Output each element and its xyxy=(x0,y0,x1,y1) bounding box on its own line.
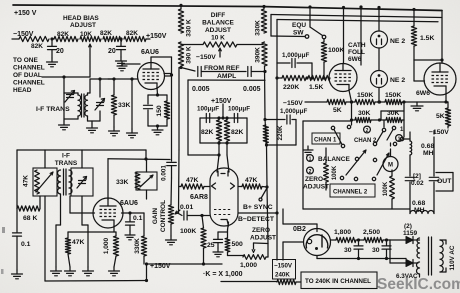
svg-text:CONTROL: CONTROL xyxy=(160,200,167,232)
svg-text:M: M xyxy=(388,163,393,169)
label 100K balance rotated xyxy=(332,165,338,180)
contact sw b xyxy=(347,125,350,128)
wire 0.01 to grid xyxy=(188,214,210,217)
label -150V diff xyxy=(196,54,216,61)
svg-text:100K: 100K xyxy=(328,47,344,54)
resistor 150K left xyxy=(355,99,375,104)
svg-text:+150V: +150V xyxy=(211,98,232,105)
label -150V (head bias feed) xyxy=(13,31,34,38)
wire right column 265 xyxy=(265,66,269,244)
ift1 secondary coil xyxy=(85,95,88,116)
ground under 20 left xyxy=(47,58,58,67)
wire 2500 right xyxy=(383,240,390,263)
svg-text:B−DETECT: B−DETECT xyxy=(238,216,275,223)
svg-text:6W6: 6W6 xyxy=(416,90,430,97)
resistor 33K stage2 xyxy=(135,172,140,190)
svg-text:0.01: 0.01 xyxy=(180,204,193,211)
box inner top xyxy=(277,20,438,64)
ift1 primary variable capacitor xyxy=(65,91,75,103)
resistor 47K right 6AR8 xyxy=(238,184,269,189)
label 0.1 left xyxy=(21,241,31,248)
label 0.1 stage2 xyxy=(133,215,143,222)
wire 82K net bottom rail xyxy=(200,141,247,144)
label 6AU6 stage1 xyxy=(141,49,159,56)
contact sw d xyxy=(373,142,376,145)
label CHAN 1 box xyxy=(312,133,340,144)
wire +150V bottom rail xyxy=(147,263,223,265)
node head bias A xyxy=(50,37,53,40)
wire ift1 varcap2 top xyxy=(98,77,101,97)
wiper arrow gain xyxy=(175,210,180,214)
label 1 right xyxy=(400,127,404,133)
capacitor 100uuF right xyxy=(234,114,237,123)
capacitor 0.001 interstage xyxy=(167,162,177,178)
label +150V (top left) xyxy=(14,10,37,17)
wire +150V top rail xyxy=(13,5,442,11)
label 20 left xyxy=(56,48,64,55)
svg-text:+150 V: +150 V xyxy=(14,10,37,17)
contact sw h xyxy=(355,157,358,160)
label CATH FOLL 6W6 xyxy=(348,42,366,63)
label 6AR8 xyxy=(190,194,208,201)
tube 6W6 output xyxy=(424,63,456,95)
wire bottom rail right xyxy=(296,281,301,283)
wire network left edge xyxy=(188,80,221,157)
label 47K right 6AR8 xyxy=(245,177,258,184)
wire ift1 primary top xyxy=(64,93,78,95)
ground 0.1 stage2 xyxy=(125,231,135,240)
wire 82K net top rail xyxy=(200,117,247,119)
svg-text:0.1: 0.1 xyxy=(21,241,31,248)
wire +150V drop xyxy=(221,104,224,120)
svg-text:0.02: 0.02 xyxy=(411,180,424,187)
box outer top xyxy=(271,15,442,37)
capacitor 0.1 left xyxy=(13,233,22,270)
label 82K second xyxy=(57,31,69,38)
meter M xyxy=(383,143,398,172)
wire 33K2 node top xyxy=(108,157,170,199)
resistor 5K row xyxy=(327,99,346,104)
label -150V box xyxy=(274,263,293,270)
capacitor from-ref right xyxy=(248,67,251,77)
svg-text:47K: 47K xyxy=(72,239,85,246)
svg-text:100K: 100K xyxy=(180,228,196,235)
ift2 right varcap xyxy=(77,177,87,189)
resistor 1.5K row xyxy=(305,75,330,80)
jack OUT xyxy=(436,173,453,192)
svg-text:33K: 33K xyxy=(118,102,131,109)
wire from ref ampl right xyxy=(252,70,267,73)
capacitor from-ref left xyxy=(198,67,201,77)
svg-text:220K: 220K xyxy=(277,125,284,141)
label 33K stage1 xyxy=(118,102,131,109)
switch lever equ xyxy=(308,5,322,35)
contact sw i xyxy=(373,158,376,161)
wire stage2 box right +150V xyxy=(145,262,148,280)
label 82K net right xyxy=(231,129,244,136)
wire 0.005 left drop xyxy=(178,68,181,214)
svg-text:NE 2: NE 2 xyxy=(390,77,405,84)
6AR8 grid dashes xyxy=(214,210,232,215)
wire 6.3v lead xyxy=(406,259,420,278)
label ZERO ADJUST 6AR8 xyxy=(250,227,276,242)
potentiometer 1000 zero xyxy=(243,255,266,260)
wiper 1000 zero xyxy=(252,243,268,257)
label circled 2 zero xyxy=(307,167,314,175)
svg-text:150K: 150K xyxy=(385,92,401,99)
resistor 150K right xyxy=(385,99,402,104)
lever sw 2 xyxy=(377,132,384,143)
svg-text:6AU6: 6AU6 xyxy=(141,49,159,56)
resistor 150 cathode xyxy=(164,95,169,126)
resistor 220K row xyxy=(282,75,306,80)
svg-text:100μμF: 100μμF xyxy=(228,106,250,113)
wire 1.5K to plate xyxy=(414,58,444,61)
svg-text:ZERO: ZERO xyxy=(252,227,270,234)
capacitor 1000uuF lower xyxy=(265,115,296,145)
svg-text:390K: 390K xyxy=(255,47,262,63)
wire 82K right to 6AR8 xyxy=(227,143,229,172)
svg-text:OF DUAL: OF DUAL xyxy=(13,72,42,79)
resistor 82K fourth xyxy=(124,36,146,41)
ground under 20 right xyxy=(116,57,127,66)
contact sw j xyxy=(340,176,343,179)
label 25 xyxy=(207,242,215,249)
svg-text:CHANNEL: CHANNEL xyxy=(13,80,45,87)
capacitor 30 left xyxy=(354,240,363,260)
svg-text:30K: 30K xyxy=(358,110,371,117)
svg-text:2: 2 xyxy=(366,128,369,134)
svg-text:GAIN: GAIN xyxy=(152,208,159,225)
ground 1000 stage2 xyxy=(109,267,120,276)
wire 68K down xyxy=(16,209,18,233)
svg-text:30K: 30K xyxy=(387,110,400,117)
ground chan1 xyxy=(303,146,313,155)
label +150V network xyxy=(211,98,232,105)
wire 82K net right edge xyxy=(246,118,248,143)
resistor 5K vert xyxy=(445,102,450,128)
wire network top edge xyxy=(188,79,265,81)
wire filter left rail mid xyxy=(409,155,411,176)
resistor 1000 stage2 xyxy=(113,232,118,267)
label 0.005 left xyxy=(192,86,210,93)
svg-text:330K: 330K xyxy=(255,20,262,36)
wire filter right low xyxy=(433,182,435,214)
label 30K left xyxy=(358,110,371,117)
svg-text:HEAD BIAS: HEAD BIAS xyxy=(63,15,99,22)
transformer HV winding xyxy=(417,238,420,258)
potentiometer GAIN CONTROL xyxy=(168,205,173,236)
label OUT xyxy=(437,178,452,185)
label 47K stage2 xyxy=(72,239,85,246)
svg-text:−150V: −150V xyxy=(274,263,293,270)
transformer 6.3V winding xyxy=(417,262,420,274)
transformer primary xyxy=(440,240,443,272)
label 10K xyxy=(80,31,92,38)
wire 150K right down xyxy=(403,102,405,137)
label 1000 zero xyxy=(240,262,257,269)
resistor 30K left xyxy=(350,102,371,123)
svg-text:30: 30 xyxy=(344,247,352,254)
resistor 33K stage1 xyxy=(111,77,116,127)
svg-text:68 K: 68 K xyxy=(23,215,37,222)
node 220K top xyxy=(263,118,266,121)
label DIFF BALANCE ADJUST 10K xyxy=(202,12,234,42)
resistor 330K stage2 xyxy=(141,213,146,264)
lamp NE2 lower xyxy=(371,71,388,88)
label TO ONE CHANNEL OF DUAL CHANNEL HEAD xyxy=(13,57,45,94)
label 390K left rotated xyxy=(186,46,193,64)
ift3 tuned box xyxy=(136,159,157,199)
svg-text:220K: 220K xyxy=(283,84,299,91)
arrow rotor 2 xyxy=(377,153,389,175)
svg-text:0.005: 0.005 xyxy=(243,86,261,93)
wire OB2 bottom xyxy=(316,256,318,259)
resistor 330K left xyxy=(178,5,183,33)
capacitor 0.01 coupling xyxy=(179,211,188,220)
label 2 1159 xyxy=(403,223,417,237)
wire 6W6cf cathode xyxy=(349,90,353,103)
potentiometer 10K head bias xyxy=(80,36,101,41)
svg-text:BALANCE: BALANCE xyxy=(318,156,350,163)
wire 110VAC leads xyxy=(440,240,446,272)
label K = X1000 xyxy=(203,271,243,278)
wire psu bottom rail xyxy=(317,258,406,260)
svg-text:25: 25 xyxy=(207,242,215,249)
resistor 82K second xyxy=(54,36,78,41)
wire ift1 secondary grid lead xyxy=(90,79,138,93)
svg-text:BALANCE: BALANCE xyxy=(202,20,234,27)
label 330K stage2 rotated xyxy=(134,238,141,254)
svg-text:20: 20 xyxy=(56,48,64,55)
svg-text:1159: 1159 xyxy=(403,230,417,237)
svg-text:NE 2: NE 2 xyxy=(390,38,405,45)
svg-text:82K: 82K xyxy=(126,30,138,37)
diode 1159 lower xyxy=(390,260,418,267)
scan speck left a xyxy=(2,227,5,233)
ground cathode stage1 xyxy=(152,126,163,135)
wire ift1 secondary bottom xyxy=(88,111,101,124)
diode 1159 upper xyxy=(390,237,418,244)
label GAIN CONTROL rotated xyxy=(152,200,167,232)
svg-text:100K: 100K xyxy=(332,165,338,180)
svg-text:I-F TRANS: I-F TRANS xyxy=(36,106,70,113)
ift2 left box xyxy=(33,168,57,196)
ift2 secondary coil xyxy=(69,170,72,194)
box -150V 240K xyxy=(273,260,296,280)
wire from ref ampl left xyxy=(181,68,195,72)
svg-text:82K: 82K xyxy=(100,30,112,37)
label 0.01 coupling xyxy=(180,204,193,211)
svg-text:MH: MH xyxy=(414,207,425,214)
svg-text:330 K: 330 K xyxy=(186,19,193,37)
svg-text:1,000: 1,000 xyxy=(240,262,257,269)
box stage2 enclosure left xyxy=(44,150,46,281)
label 0.001 rotated xyxy=(161,165,168,181)
watermark SeekIC.com xyxy=(377,276,460,293)
capacitor 30 right xyxy=(382,240,391,260)
wire -150V feed xyxy=(12,38,19,40)
switch B+ sync lever xyxy=(259,188,267,201)
node 150K mid xyxy=(375,100,385,103)
label 110V AC rotated xyxy=(449,245,456,270)
svg-text:1,000μμF: 1,000μμF xyxy=(280,108,307,115)
label BALANCE xyxy=(318,156,350,163)
label 6AU6 stage2 xyxy=(120,200,138,207)
label 6.3VAC xyxy=(396,273,418,280)
wire head junction to wiper xyxy=(64,76,90,78)
resistor 2500 xyxy=(364,237,383,242)
svg-text:CHAN 1: CHAN 1 xyxy=(314,138,337,144)
label TO 240K IN CHANNEL xyxy=(305,278,371,285)
svg-text:1.5K: 1.5K xyxy=(420,35,434,42)
ground bottom left xyxy=(12,270,23,279)
label 30 right xyxy=(372,247,380,254)
contact sw g xyxy=(393,142,396,145)
label 220K row xyxy=(283,84,299,91)
wire ift1 secondary top xyxy=(88,93,91,95)
svg-text:20: 20 xyxy=(108,48,116,55)
wire head to transformer xyxy=(42,77,64,93)
label 100uuF right xyxy=(228,106,250,113)
svg-text:1,800: 1,800 xyxy=(334,229,351,236)
wire to +150V terminal xyxy=(146,38,150,40)
lamp NE2 upper xyxy=(371,31,388,48)
svg-text:100K: 100K xyxy=(383,181,389,196)
scan speck left b xyxy=(1,269,4,274)
label 30K right xyxy=(387,110,400,117)
resistor 240K bottom xyxy=(277,279,296,284)
svg-text:82K: 82K xyxy=(231,129,244,136)
svg-text:ZERO: ZERO xyxy=(305,176,323,183)
contact sw c xyxy=(341,144,344,147)
label 220K vert rotated xyxy=(277,125,284,141)
label 33K stage2 xyxy=(116,179,129,186)
svg-text:6AU6: 6AU6 xyxy=(120,200,138,207)
svg-text:0.68: 0.68 xyxy=(421,143,434,150)
label 1.5K right xyxy=(420,35,434,42)
label 30 left xyxy=(344,247,352,254)
wire 500 to pot xyxy=(228,252,244,256)
svg-text:2,500: 2,500 xyxy=(363,229,380,236)
svg-text:[2]: [2] xyxy=(413,173,421,180)
svg-text:B+ SYNC: B+ SYNC xyxy=(243,204,273,211)
ground tube1 left return xyxy=(127,129,138,138)
label 330K right rotated xyxy=(255,20,262,36)
svg-text:500: 500 xyxy=(232,241,244,248)
ground ift2 mid xyxy=(83,267,94,276)
ift1 primary coil xyxy=(78,95,81,116)
resistor 1.5K right xyxy=(411,8,416,60)
resistor 82K net left xyxy=(216,116,221,141)
ground tube1 internal shield xyxy=(117,62,140,71)
label 100K meter rotated xyxy=(383,181,389,196)
label I-F TRANS (stage1) xyxy=(36,106,70,113)
resistor 82K head bias first xyxy=(19,36,49,41)
wire ift1 left down xyxy=(63,93,65,121)
svg-text:OUT: OUT xyxy=(437,178,452,185)
wire cathode 6AU6-1 xyxy=(156,87,159,97)
contact sw a xyxy=(331,126,334,129)
svg-text:82K: 82K xyxy=(57,31,69,38)
svg-text:47K: 47K xyxy=(23,175,30,187)
ground under 33K stage1 xyxy=(109,127,120,136)
label B+ SYNC xyxy=(243,204,273,211)
label 100K equ xyxy=(328,47,344,54)
svg-text:DIFF: DIFF xyxy=(211,12,225,19)
svg-text:1,000: 1,000 xyxy=(103,237,110,254)
wire 82K left to 6AR8 xyxy=(217,143,219,172)
wire stage2 left edge corner xyxy=(16,150,18,205)
svg-text:33K: 33K xyxy=(116,179,129,186)
wire 6W6cf plate to rail xyxy=(342,6,345,64)
node 2500 right xyxy=(385,238,388,241)
wire filter left rail top xyxy=(409,132,411,141)
svg-text:CHANNEL 2: CHANNEL 2 xyxy=(333,190,368,196)
6AR8 deflector right xyxy=(231,183,235,189)
label 0.68MH upper xyxy=(421,143,434,157)
lever sw 1 xyxy=(334,130,342,145)
arrow rotor 1 xyxy=(346,150,366,175)
wire tube1 left return xyxy=(130,77,133,129)
contact sw e xyxy=(382,128,385,131)
box switch section xyxy=(303,121,410,209)
svg-text:30: 30 xyxy=(372,247,380,254)
wire cathode 6AU6-2 xyxy=(68,226,116,232)
ground ift2 left xyxy=(51,267,62,276)
svg-text:HEAD: HEAD xyxy=(13,87,32,94)
wire 1800 to 2500 xyxy=(356,239,364,241)
svg-text:0B2: 0B2 xyxy=(293,226,306,233)
svg-text:150K: 150K xyxy=(357,92,373,99)
svg-text:5K: 5K xyxy=(333,107,342,114)
svg-text:TRANS: TRANS xyxy=(55,160,78,167)
label 1800 xyxy=(334,229,351,236)
resistor 68K xyxy=(17,196,40,211)
capacitor 20 (left) xyxy=(48,39,57,58)
wire stage2 box bottom xyxy=(45,279,148,282)
label 68K xyxy=(23,215,37,222)
resistor 390K right xyxy=(262,42,267,66)
svg-text:−150V: −150V xyxy=(283,100,303,107)
resistor 220K vert xyxy=(263,125,268,147)
wire screen top 6AU6-1 xyxy=(151,57,172,161)
wire B-DETECT xyxy=(239,211,279,214)
ift2 right box xyxy=(71,168,93,196)
label 82K first xyxy=(31,43,43,50)
label 47K left 6AR8 xyxy=(186,177,199,184)
svg-text:ADJUST: ADJUST xyxy=(303,184,329,191)
label 0.005 right xyxy=(243,86,261,93)
wire 82K net left edge xyxy=(199,118,201,143)
label ZERO ADJUST sw xyxy=(303,176,329,191)
label OB2 xyxy=(293,226,306,233)
tube 6AR8 envelope xyxy=(210,168,238,226)
svg-text:2: 2 xyxy=(309,169,312,175)
label 150K right xyxy=(385,92,401,99)
label 1000uuF lower xyxy=(280,108,307,115)
svg-text:82K: 82K xyxy=(201,129,214,136)
wire 0.001 down to gain xyxy=(170,178,173,205)
label 100uuF left xyxy=(197,106,219,113)
svg-text:10 K: 10 K xyxy=(211,35,225,42)
label 2500 xyxy=(363,229,380,236)
wire cathode loop bottom xyxy=(148,124,167,127)
ground gain control xyxy=(166,236,177,245)
svg-text:CATH: CATH xyxy=(348,42,366,49)
tube 6W6 cath foll xyxy=(329,64,357,92)
ift2 core xyxy=(64,169,67,195)
